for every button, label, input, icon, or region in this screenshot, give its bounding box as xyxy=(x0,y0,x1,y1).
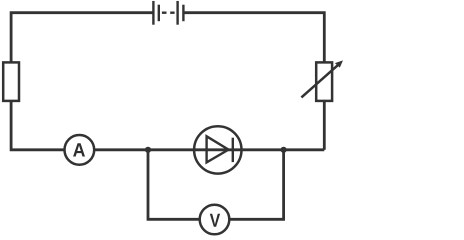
battery dashed link dash1 xyxy=(162,11,167,13)
junction node dot left xyxy=(145,147,151,153)
variable resistor arrowhead xyxy=(335,60,343,67)
wire right lower vertical xyxy=(323,101,326,150)
voltmeter V1 circle xyxy=(200,205,230,235)
junction node dot right xyxy=(281,147,287,153)
variable resistor arrow shaft xyxy=(301,64,338,97)
battery B1 xyxy=(153,1,183,25)
wire middle run ammeter to right xyxy=(94,148,324,151)
battery cell1 short plate xyxy=(158,5,160,22)
wire voltmeter branch left xyxy=(148,150,200,220)
resistor R1 (left box) xyxy=(3,62,19,101)
battery cell2 short plate xyxy=(182,5,184,22)
battery cell2 long plate xyxy=(176,1,178,25)
wire left lower vertical to ammeter xyxy=(11,101,64,150)
ammeter A1 circle xyxy=(65,135,95,165)
wire top-left corner run xyxy=(11,13,153,63)
diode triangle xyxy=(207,136,229,162)
battery dashed link dash2 xyxy=(170,11,174,13)
diode cathode bar xyxy=(232,138,234,162)
wire voltmeter branch right xyxy=(229,150,283,220)
diode circle D1 xyxy=(194,126,241,173)
variable resistor R2 (right box) xyxy=(316,62,332,101)
wire top-right corner run xyxy=(183,13,324,63)
voltmeter label V xyxy=(210,214,220,227)
ammeter label A xyxy=(73,143,85,156)
battery cell1 long plate xyxy=(152,1,154,25)
